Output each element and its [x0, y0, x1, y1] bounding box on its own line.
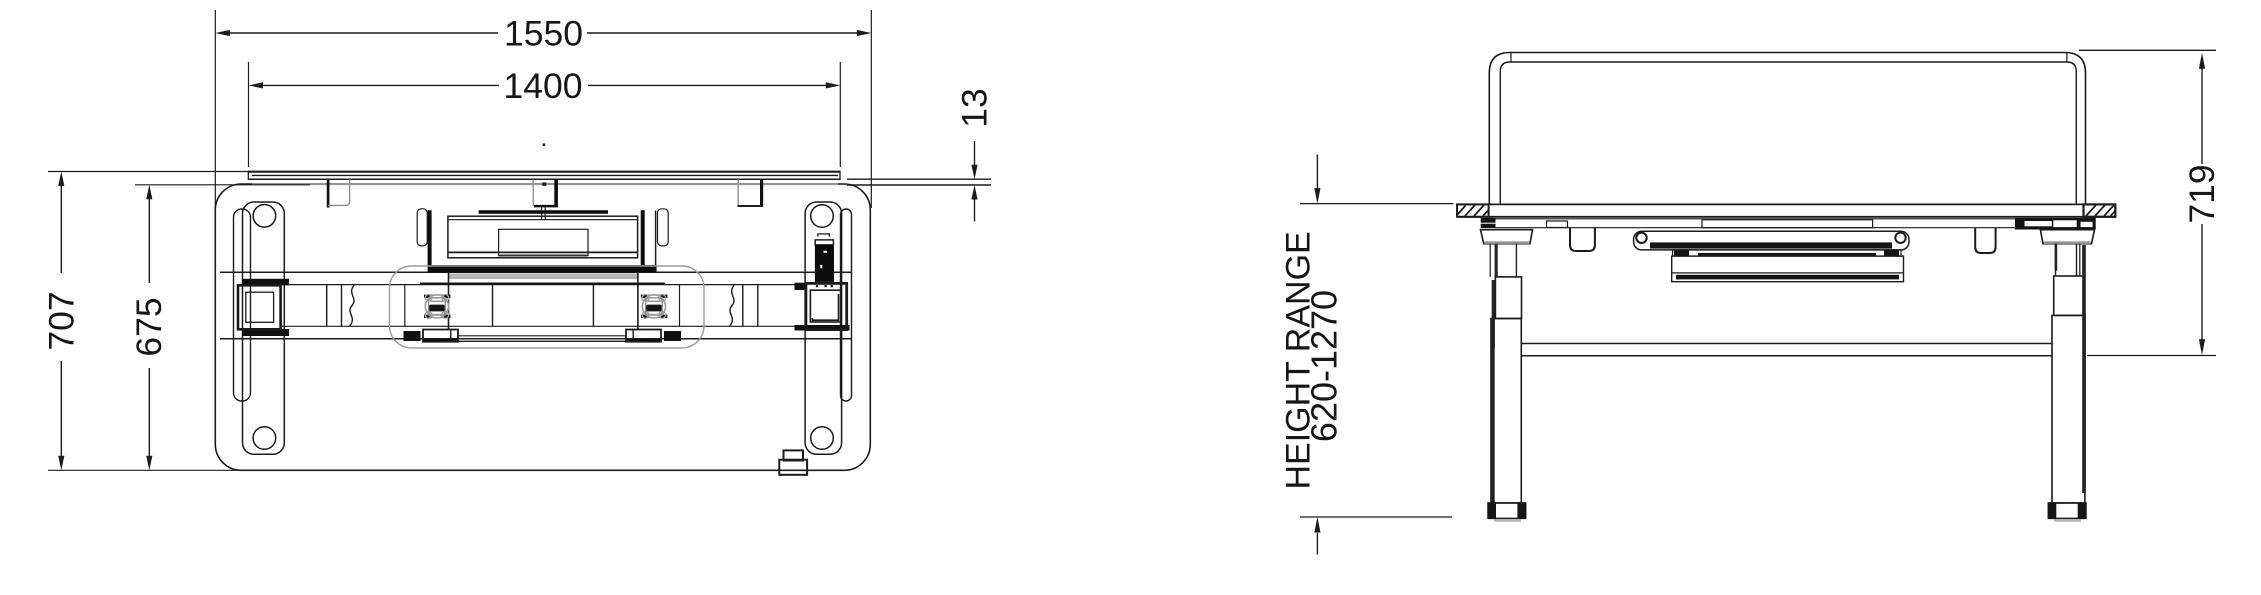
dimension 1400	[249, 62, 841, 167]
beam break wave left	[350, 285, 355, 327]
left leg column	[1490, 244, 1521, 503]
left clamp tab	[328, 180, 350, 208]
svg-text:707: 707	[42, 291, 82, 350]
tray lower box	[1672, 256, 1904, 282]
controller label rect	[499, 229, 588, 255]
cable outlet tab (plan bottom)	[779, 450, 807, 474]
left bolt rosette	[424, 294, 451, 319]
left foot top bolt circle	[253, 205, 276, 228]
left leg column square	[238, 285, 281, 329]
under plates	[404, 330, 682, 342]
right cable hook	[1975, 228, 1995, 253]
height range label	[1280, 231, 1345, 489]
center housing capsule	[390, 266, 705, 348]
svg-text:13: 13	[955, 88, 995, 128]
dimension 719	[2079, 50, 2222, 355]
center inner rect verticals	[448, 273, 450, 330]
right mount bracket	[641, 209, 669, 267]
dimension 13	[847, 88, 995, 221]
dimension 1550	[215, 10, 871, 208]
controller box	[448, 216, 638, 258]
controller top thick bar	[479, 210, 608, 214]
right leg column	[2052, 244, 2086, 503]
frame rail	[1481, 218, 2096, 230]
beam joint verticals right	[742, 285, 744, 327]
height range dimension marks	[1300, 155, 1454, 555]
left cable hook	[1570, 228, 1595, 251]
dimension 707	[42, 172, 253, 471]
right foot narrow capsule	[841, 209, 852, 401]
right bolt rosette	[641, 294, 668, 319]
beam break wave right	[730, 285, 735, 327]
beam outer lines	[220, 271, 851, 273]
svg-text:719: 719	[2182, 164, 2222, 223]
left leg thick bars	[242, 279, 289, 286]
tabletop left section hatch	[1457, 204, 1489, 216]
left foot wide capsule	[243, 202, 285, 454]
screen corner ticks	[1510, 53, 1512, 63]
gray shadow under mounting bar	[448, 273, 637, 279]
dimension 675	[129, 185, 310, 471]
tabletop (plan outline)	[215, 184, 870, 470]
right foot top bolt circle	[811, 205, 834, 228]
left mount bracket	[417, 209, 431, 267]
right leg bracket	[2040, 230, 2094, 244]
right foot	[2048, 503, 2086, 521]
thick black mounting bar	[428, 265, 657, 273]
crossbar	[1521, 344, 2052, 356]
right foot wide capsule	[805, 202, 842, 454]
beam inner lines	[282, 284, 806, 286]
right foot bottom bolt circle	[811, 427, 834, 450]
tray mid shelf	[1673, 250, 1901, 256]
svg-text:620-1270: 620-1270	[1304, 290, 1345, 442]
right leg thick bars	[795, 283, 807, 290]
right leg column square	[806, 283, 847, 329]
screen panel outer	[1489, 53, 2085, 205]
screen panel inner	[1500, 62, 2076, 204]
screen band rear edge lines	[248, 171, 840, 185]
center clamp tab	[533, 180, 558, 220]
tabletop right section hatch	[2084, 204, 2116, 216]
tabletop (side)	[1457, 204, 2115, 216]
beam joint verticals left	[326, 285, 328, 327]
handset switch	[815, 234, 834, 287]
cable tray	[1634, 231, 1909, 250]
center mark dot	[543, 143, 546, 146]
left foot narrow capsule	[234, 209, 251, 401]
svg-text:1400: 1400	[504, 66, 583, 106]
right clamp tab	[738, 180, 764, 208]
left foot	[1488, 503, 1526, 521]
svg-text:1550: 1550	[504, 14, 583, 54]
left foot bottom bolt circle	[253, 427, 276, 450]
left leg bracket	[1481, 230, 1533, 244]
svg-text:675: 675	[129, 297, 169, 356]
dark segment of beam line under box	[420, 283, 665, 285]
